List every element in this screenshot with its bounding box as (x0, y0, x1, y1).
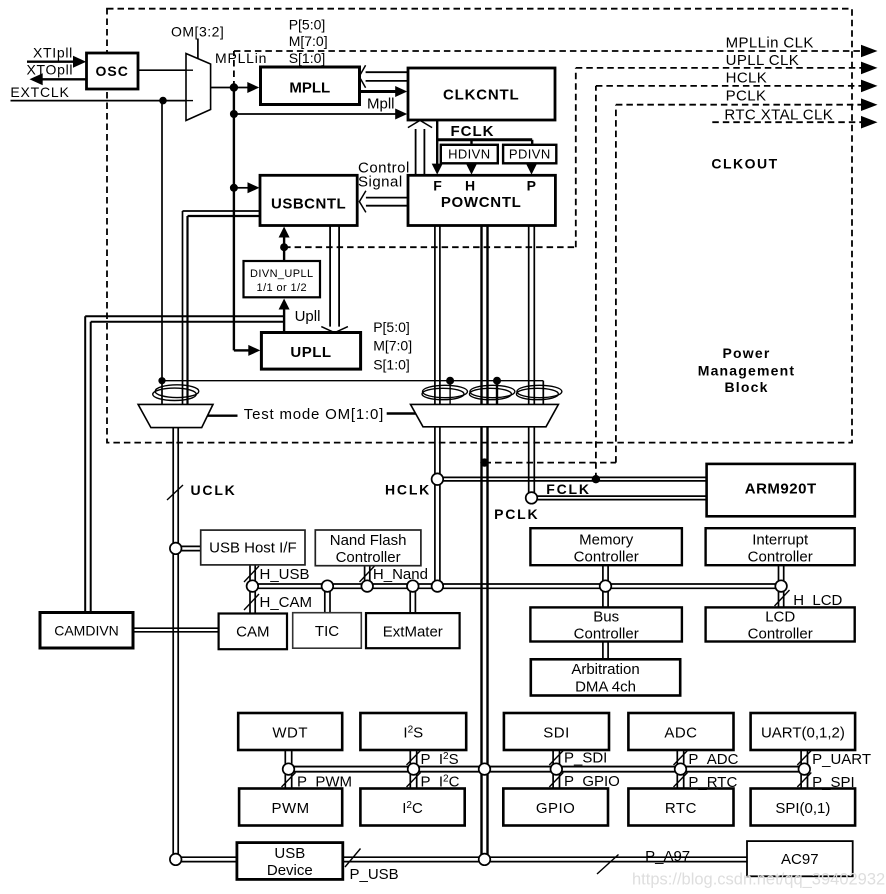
open circle H-bus USB Host tap (247, 580, 259, 592)
svg-text:M[7:0]: M[7:0] (289, 33, 328, 49)
svg-text:S[1:0]: S[1:0] (373, 357, 410, 373)
wire test stub into mux3 ellipse2 (thick) (496, 381, 498, 405)
slash P_ADC (674, 751, 688, 766)
svg-text:Arbitration: Arbitration (571, 661, 639, 678)
svg-text:Management: Management (698, 363, 796, 379)
hollow arrowhead down into UPLL (321, 327, 348, 333)
wire label to mux3 select line (387, 412, 416, 414)
svg-text:DMA 4ch: DMA 4ch (575, 679, 636, 696)
open circle bottom bus UCLK rail (170, 854, 182, 866)
wire I2S tap to P-bus (410, 750, 416, 767)
arrowhead into UPLL (248, 345, 260, 356)
svg-text:OM[3:2]: OM[3:2] (171, 23, 224, 39)
wire CAM tap from bus (250, 588, 255, 613)
box PWM (239, 789, 342, 826)
hollow arrowhead into USBCNTL (359, 191, 366, 213)
svg-text:Signal: Signal (358, 173, 403, 190)
box ExtMater (366, 613, 460, 648)
svg-text:Upll: Upll (295, 308, 321, 325)
arrowhead XTOpll (30, 73, 43, 85)
wire H-bus horizontal (252, 584, 781, 588)
slash P_A97 (597, 855, 619, 875)
wire mux1 output to MPLL (211, 87, 249, 89)
wire XTIpll input (27, 61, 74, 63)
arrowhead P into POWCNTL (526, 164, 537, 175)
arrowhead up into USBCNTL (279, 227, 290, 238)
svg-text:EXTCLK: EXTCLK (10, 84, 69, 100)
svg-text:Controller: Controller (574, 626, 639, 643)
svg-text:UPLL CLK: UPLL CLK (726, 52, 800, 69)
svg-text:H_CAM: H_CAM (260, 594, 313, 611)
wire Upll branch double line to left rail feeding CAMDIVN (85, 316, 284, 612)
ellipse pair over mux3 F input (423, 385, 468, 397)
box CAM (219, 614, 287, 650)
junction dot EXTCLK rail (159, 97, 167, 105)
box UART(0,1,2) (751, 713, 856, 750)
wire RTC tap from P-bus (677, 772, 683, 789)
svg-text:P_ADC: P_ADC (688, 751, 738, 768)
svg-text:UART(0,1,2): UART(0,1,2) (761, 725, 845, 742)
wire GPIO tap from P-bus (553, 772, 559, 789)
wire PCLK pair B mux3 output down to bottom bus (thick) (482, 426, 488, 857)
wire P-bus horizontal (289, 767, 805, 772)
arrowhead up into DIVN_UPLL (279, 299, 290, 310)
arrowhead H into POWCNTL (466, 164, 477, 175)
wire WDT tap to P-bus (285, 750, 291, 767)
svg-text:P_SPI: P_SPI (812, 774, 855, 791)
box UPLL (261, 333, 360, 370)
slash P_UART (797, 751, 811, 766)
slash H_LCD (775, 590, 790, 606)
wire DIVN_UPLL to USBCNTL (283, 237, 285, 261)
svg-text:H_USB: H_USB (260, 566, 310, 583)
svg-text:DIVN_UPLL: DIVN_UPLL (250, 268, 314, 280)
wire Memory Controller tap to bus (603, 565, 608, 584)
box I2S (360, 713, 466, 750)
outer dashed box (clock generation block) (107, 9, 852, 443)
arrowhead F into POWCNTL (432, 164, 443, 175)
wire SDI tap to P-bus (553, 750, 559, 767)
slash P_RTC (674, 773, 688, 788)
svg-text:P[5:0]: P[5:0] (289, 16, 326, 32)
mux3 middle test-mode mux (411, 404, 559, 426)
box ARM920T (707, 464, 855, 516)
open circle P-bus ADC/RTC tap (675, 763, 687, 775)
svg-text:PDIVN: PDIVN (509, 147, 551, 162)
svg-text:PCLK: PCLK (726, 87, 767, 104)
svg-text:HCLK: HCLK (385, 481, 431, 497)
box LCD Controller (706, 607, 855, 641)
svg-text:P: P (527, 178, 536, 194)
wire into UPLL from rail (234, 349, 249, 351)
wire Interrupt Controller tap to bus (779, 565, 784, 584)
svg-text:H_LCD: H_LCD (793, 592, 842, 609)
wire arrow into USBCNTL from rail (234, 187, 249, 189)
box USBCNTL (260, 175, 357, 225)
hollow up-arrow shaft POWCNTL to CLKCNTL (416, 129, 425, 175)
wire SPI tap from P-bus (801, 772, 807, 789)
box TIC (293, 613, 362, 649)
open circle P-bus UART/SPI tap (799, 763, 811, 775)
wire I2C tap from P-bus (410, 772, 416, 789)
box CLKCNTL (408, 68, 555, 120)
svg-text:P_PWM: P_PWM (297, 774, 352, 791)
open circle bottom bus PCLK rail (479, 854, 491, 866)
hollow arrow Control Signal shaft POWCNTL to USBCNTL (365, 198, 408, 206)
wire ExtMater tap from bus (410, 588, 415, 613)
wire PDIVN out to POWCNTL P (530, 163, 532, 167)
wire UCLK circle to USB Host I/F (181, 546, 201, 550)
wire MPLLin rail down the left of MPLL/USBCNTL (233, 88, 235, 351)
wire Bus Controller to Arbitration (603, 642, 608, 660)
svg-text:Controller: Controller (574, 549, 639, 566)
svg-text:H_Nand: H_Nand (373, 566, 428, 583)
svg-text:Test mode OM[1:0]: Test mode OM[1:0] (244, 406, 384, 423)
svg-text:WDT: WDT (272, 725, 308, 742)
wire test-mode line across muxes (162, 380, 543, 382)
slash P_SPI (797, 773, 811, 788)
slash UCLK (167, 485, 183, 500)
arrowhead Mpll into CLKCNTL (395, 86, 407, 97)
box SDI (504, 713, 609, 750)
box OSC (87, 53, 139, 89)
arrowhead into CLKCNTL (lower) (395, 109, 407, 120)
slash P_I2S (407, 751, 421, 766)
svg-text:Controller: Controller (748, 626, 813, 643)
slash H_CAM (244, 594, 259, 610)
open circle H-bus Nand tap (361, 580, 373, 592)
svg-text:P_I2C: P_I2C (421, 774, 460, 791)
svg-text:GPIO: GPIO (536, 800, 576, 817)
svg-text:Mpll: Mpll (367, 96, 395, 113)
svg-text:PCLK: PCLK (494, 506, 539, 522)
ellipse pair over mux2 inputs (155, 385, 199, 398)
box WDT (238, 713, 342, 750)
arrowhead into USBCNTL (248, 182, 260, 193)
wire FCLK pair C mux3 output down to FCLK circle (529, 426, 535, 493)
junction dot PCLK dashed tap (480, 458, 488, 466)
wire XTOpll output (42, 78, 87, 80)
junction dot test line left mux (158, 377, 165, 384)
svg-text:PWM: PWM (272, 800, 310, 817)
slash P_SDI (549, 751, 563, 766)
svg-text:XTIpll: XTIpll (33, 44, 73, 60)
svg-text:P_UART: P_UART (812, 751, 871, 768)
mux1 OSC/EXTCLK selector (186, 54, 211, 121)
svg-text:Block: Block (724, 379, 768, 395)
junction dot USBCNTL input (230, 184, 238, 192)
box SPI(0,1) (751, 789, 856, 826)
open circle P-bus SDI/GPIO tap (551, 763, 563, 775)
svg-text:USBCNTL: USBCNTL (271, 196, 346, 213)
box ADC (628, 713, 733, 750)
junction dot mux1 output MPLLin (230, 83, 238, 91)
svg-text:USB Host I/F: USB Host I/F (209, 540, 297, 557)
svg-text:I2C: I2C (402, 800, 423, 817)
box Interrupt Controller (706, 528, 855, 565)
wire OSC output to mux (138, 69, 186, 71)
svg-text:P_A97: P_A97 (645, 848, 690, 865)
svg-text:P_RTC: P_RTC (688, 774, 737, 791)
box Bus Controller (530, 607, 682, 641)
svg-text:ADC: ADC (664, 725, 697, 742)
svg-text:P_USB: P_USB (350, 866, 399, 883)
slash P_I2C (407, 773, 421, 788)
dashed net UPLL CLK (from DIVN_UPLL dot up and across) (284, 68, 862, 247)
svg-text:MPLL: MPLL (289, 80, 330, 97)
open circle P-bus WDT/PWM tap (283, 763, 295, 775)
wire P pair POWCNTL to mux3 (529, 226, 535, 405)
box Memory Controller (530, 528, 682, 565)
slash P_PWM (282, 773, 296, 788)
svg-text:SPI(0,1): SPI(0,1) (775, 800, 830, 817)
svg-text:S[1:0]: S[1:0] (289, 50, 326, 66)
wire PWM tap from P-bus (285, 772, 291, 789)
wire UCLK rail mux2 output down to bottom bus (173, 427, 178, 857)
box Arbitration DMA 4ch (531, 659, 680, 695)
open circle H-bus Interrupt/LCD tap (775, 580, 787, 592)
svg-text:MPLLin CLK: MPLLin CLK (726, 35, 814, 52)
open circle H-bus ExtMater tap (407, 580, 419, 592)
mux2 left test-mode mux (138, 404, 213, 427)
box RTC (628, 789, 733, 826)
box POWCNTL (408, 175, 555, 225)
wire branch into CLKCNTL second input (234, 113, 397, 115)
wire EXTCLK rail down to mux2 (161, 101, 163, 405)
open circle H-bus pair A junction (432, 580, 444, 592)
junction dot test line mux3 ellipse2 (493, 377, 501, 385)
svg-text:USB: USB (274, 845, 305, 862)
svg-text:FCLK: FCLK (546, 481, 591, 497)
svg-text:XTOpll: XTOpll (27, 62, 74, 78)
wire FCLK drop from CLKCNTL to POWCNTL F (436, 121, 438, 167)
svg-text:P_GPIO: P_GPIO (564, 773, 620, 790)
box CAMDIVN (40, 613, 133, 649)
ellipse pair over mux3 P input (517, 385, 562, 397)
wire ADC tap to P-bus (677, 750, 683, 767)
wire Bus Controller tap from bus (603, 588, 608, 607)
svg-text:1/1 or 1/2: 1/1 or 1/2 (257, 282, 307, 294)
svg-text:Interrupt: Interrupt (752, 532, 809, 549)
svg-text:CLKOUT: CLKOUT (711, 156, 778, 172)
arrowhead into MPLL (247, 82, 259, 93)
svg-text:Nand Flash: Nand Flash (330, 532, 407, 549)
wire LCD Controller tap from bus (779, 588, 784, 607)
box I2C (360, 789, 464, 826)
svg-text:https://blog.csdn.net/qq_39402: https://blog.csdn.net/qq_39402932 (632, 871, 885, 889)
arrowhead output MPLLin CLK (861, 45, 878, 58)
hollow arrow UPLL P/M/S shaft (USBCNTL to UPLL) (330, 226, 339, 331)
svg-text:OSC: OSC (96, 63, 129, 79)
svg-text:Controller: Controller (748, 549, 813, 566)
svg-text:CAM: CAM (236, 624, 269, 641)
box GPIO (503, 789, 608, 826)
box AC97 (747, 841, 853, 876)
ellipse pair over mux3 H input (470, 385, 515, 397)
arrowhead output RTC XTAL CLK (861, 116, 878, 129)
junction dot DIVN_UPLL / UPLL CLK tap (280, 243, 288, 251)
svg-text:Power: Power (722, 345, 770, 361)
wire bar drop into PDIVN (531, 140, 533, 145)
open circle P-bus PCLK rail junction (479, 763, 491, 775)
wire test corner into mux3 ellipse3 (542, 381, 544, 405)
mux1 input tick EXTCLK (186, 100, 193, 102)
svg-text:POWCNTL: POWCNTL (441, 194, 522, 211)
junction dot HCLK dashed tap (592, 475, 600, 483)
wire mux2 select line to label (208, 415, 238, 417)
wire UART tap to P-bus (801, 750, 807, 767)
open circle pair A on HCLK line (432, 473, 444, 485)
dashed net RTC XTAL CLK (712, 121, 862, 123)
svg-text:Bus: Bus (593, 609, 619, 626)
slash H_Nand (360, 566, 375, 582)
box DIVN_UPLL (244, 261, 321, 297)
slash H_USB (244, 566, 259, 582)
svg-text:TIC: TIC (315, 623, 339, 640)
svg-text:MPLLin: MPLLin (215, 50, 267, 66)
dashed net MPLLin CLK (riser from mux output, then across top) (234, 51, 862, 88)
wire HDIVN out to POWCNTL H (470, 163, 472, 167)
svg-text:ARM920T: ARM920T (745, 480, 817, 497)
svg-text:RTC XTAL CLK: RTC XTAL CLK (724, 106, 833, 123)
box Nand Flash Controller (315, 530, 421, 566)
arrowhead output UPLL CLK (861, 62, 878, 75)
svg-text:CLKCNTL: CLKCNTL (443, 87, 519, 104)
box HDIVN (441, 145, 498, 164)
open circle P-bus I2S/I2C tap (408, 763, 420, 775)
svg-text:I2S: I2S (403, 725, 423, 742)
open circle FCLK on pair C (526, 492, 538, 504)
svg-text:P_SDI: P_SDI (564, 750, 607, 767)
slash P_GPIO (549, 773, 563, 788)
hollow arrowhead into MPLL (359, 65, 365, 87)
svg-text:F: F (433, 178, 442, 194)
svg-text:UPLL: UPLL (290, 344, 331, 361)
svg-text:P[5:0]: P[5:0] (373, 319, 410, 335)
wire USB Host tap to bus (250, 565, 255, 584)
wire bar drop into HDIVN (470, 140, 472, 145)
svg-text:HDIVN: HDIVN (448, 147, 490, 162)
wire OM[3:2] select into mux (197, 39, 199, 60)
arrowhead output HCLK (861, 80, 878, 93)
svg-text:HCLK: HCLK (726, 70, 768, 87)
wire test stub into mux3 ellipse1 (449, 381, 451, 405)
svg-text:FCLK: FCLK (451, 123, 495, 140)
open circle H-bus TIC tap (322, 580, 334, 592)
slash P_USB (345, 849, 361, 868)
svg-text:RTC: RTC (665, 800, 697, 817)
wire FCLK distribution bar (437, 138, 532, 141)
wire TIC tap from bus (325, 588, 330, 612)
svg-text:UCLK: UCLK (191, 482, 237, 498)
svg-text:AC97: AC97 (781, 851, 819, 868)
box USB Device (237, 843, 343, 880)
wire EXTCLK into mux (11, 100, 187, 102)
open circle H-bus Memory/Bus tap (600, 580, 612, 592)
svg-text:CAMDIVN: CAMDIVN (54, 623, 119, 639)
dashed net PCLK (tap from PCLK rail, riser, across) (485, 105, 863, 463)
wire F pair POWCNTL to mux3 (435, 226, 440, 405)
wire Nand tap to bus (365, 566, 370, 584)
wire double line from USBCNTL left going down to mux2 (183, 211, 261, 405)
arrowhead output PCLK (861, 98, 878, 111)
svg-text:Device: Device (267, 862, 313, 879)
svg-text:M[7:0]: M[7:0] (373, 337, 412, 353)
junction dot CLKCNTL branch (230, 110, 238, 118)
svg-text:ExtMater: ExtMater (383, 623, 443, 640)
hollow arrow P/M/S shaft CLKCNTL to MPLL (365, 72, 409, 81)
junction dot test line mux3 ellipse1 (446, 377, 454, 385)
box PDIVN (503, 145, 556, 164)
mux1 input tick OSC (186, 69, 193, 71)
svg-text:H: H (465, 178, 475, 194)
box MPLL (261, 67, 360, 105)
svg-text:Memory: Memory (579, 532, 634, 549)
dashed net HCLK (riser from HCLK line dot) (596, 86, 862, 479)
svg-text:Controller: Controller (336, 549, 401, 566)
svg-text:LCD: LCD (765, 609, 795, 626)
wire Mpll thick arrow MPLL to CLKCNTL (360, 90, 397, 93)
wire bottom bus USB Device / AC97 (181, 857, 748, 861)
wire HCLK pair A mux3 output down to H-bus (435, 426, 440, 584)
open circle UCLK to USB Host (170, 543, 182, 555)
wire UpII UPLL top to DIVN_UPLL (283, 310, 285, 333)
wire H pair POWCNTL to mux3 (thick) (482, 226, 488, 405)
box USB Host I/F (201, 530, 305, 565)
wire FCLK horizontal line to ARM920T (532, 496, 707, 500)
svg-text:P_I2S: P_I2S (421, 751, 459, 768)
wire HCLK horizontal line to ARM920T (432, 477, 707, 481)
svg-text:SDI: SDI (543, 725, 570, 742)
hollow arrowhead up into CLKCNTL (408, 120, 432, 127)
wire CAMDIVN to CAM double line (133, 628, 219, 632)
arrowhead XTIpll (73, 56, 86, 68)
